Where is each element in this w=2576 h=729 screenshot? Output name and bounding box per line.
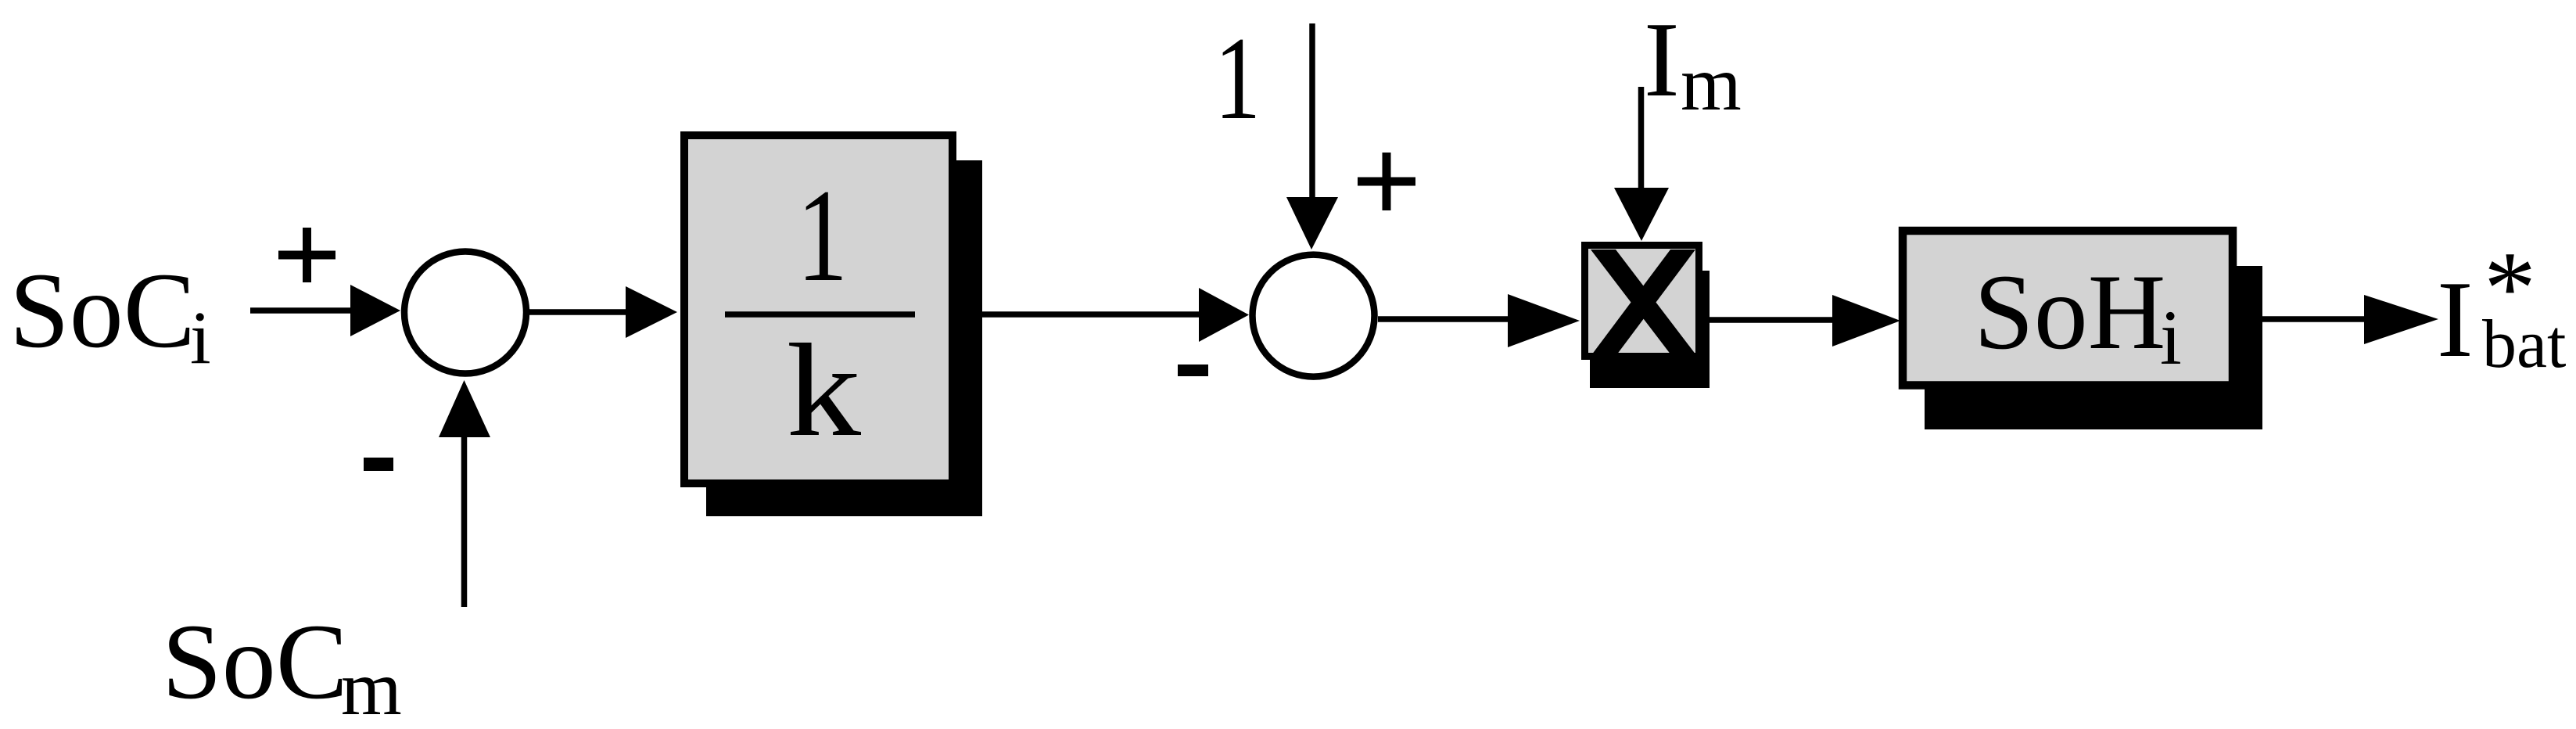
- wire S1 to block 1/k: [526, 286, 677, 338]
- svg-text:bat: bat: [2482, 307, 2567, 382]
- svg-text:m: m: [1681, 40, 1742, 127]
- minus sign at S2: [1178, 364, 1208, 376]
- label SoCi: [9, 250, 211, 379]
- svg-text:I: I: [1644, 0, 1680, 119]
- plus sign at first summing junction: [278, 228, 335, 282]
- svg-text:SoC: SoC: [9, 250, 196, 370]
- block 1/k: [684, 135, 953, 483]
- wire S2 to multiplier: [1378, 294, 1580, 347]
- block SoHi shadow: [1925, 266, 2262, 429]
- plus sign at S2: [1358, 153, 1415, 210]
- label Ibat*: [2437, 230, 2567, 382]
- summing junction S2: [1253, 255, 1375, 377]
- output wire to Ibat: [2262, 295, 2438, 344]
- label SoCm: [162, 602, 402, 729]
- svg-text:1: 1: [1214, 13, 1261, 144]
- svg-text:1: 1: [797, 162, 848, 309]
- wire constant 1 to S2: [1286, 23, 1338, 250]
- wire SoCm to S1: [439, 380, 490, 607]
- block SoHi: [1903, 231, 2233, 386]
- wire 1/k to summing junction S2: [982, 288, 1249, 342]
- svg-text:i: i: [2160, 294, 2182, 381]
- minus sign at S1: [364, 458, 393, 471]
- wire Im to multiplier: [1614, 87, 1669, 241]
- multiplier block X: [1585, 246, 1699, 357]
- block 1/k shadow: [706, 160, 982, 516]
- label constant 1: [1214, 13, 1261, 144]
- label Im: [1644, 0, 1742, 127]
- wire multiplier to block SoHi: [1710, 295, 1900, 347]
- svg-text:i: i: [190, 296, 211, 379]
- svg-text:m: m: [341, 645, 402, 729]
- wire SoCi to summing junction S1: [250, 285, 400, 336]
- summing junction S1: [404, 252, 526, 374]
- svg-text:I: I: [2437, 259, 2474, 380]
- svg-text:k: k: [787, 317, 862, 464]
- multiplier block shadow: [1590, 271, 1710, 388]
- svg-text:SoC: SoC: [162, 602, 348, 721]
- svg-text:SoH: SoH: [1974, 252, 2165, 372]
